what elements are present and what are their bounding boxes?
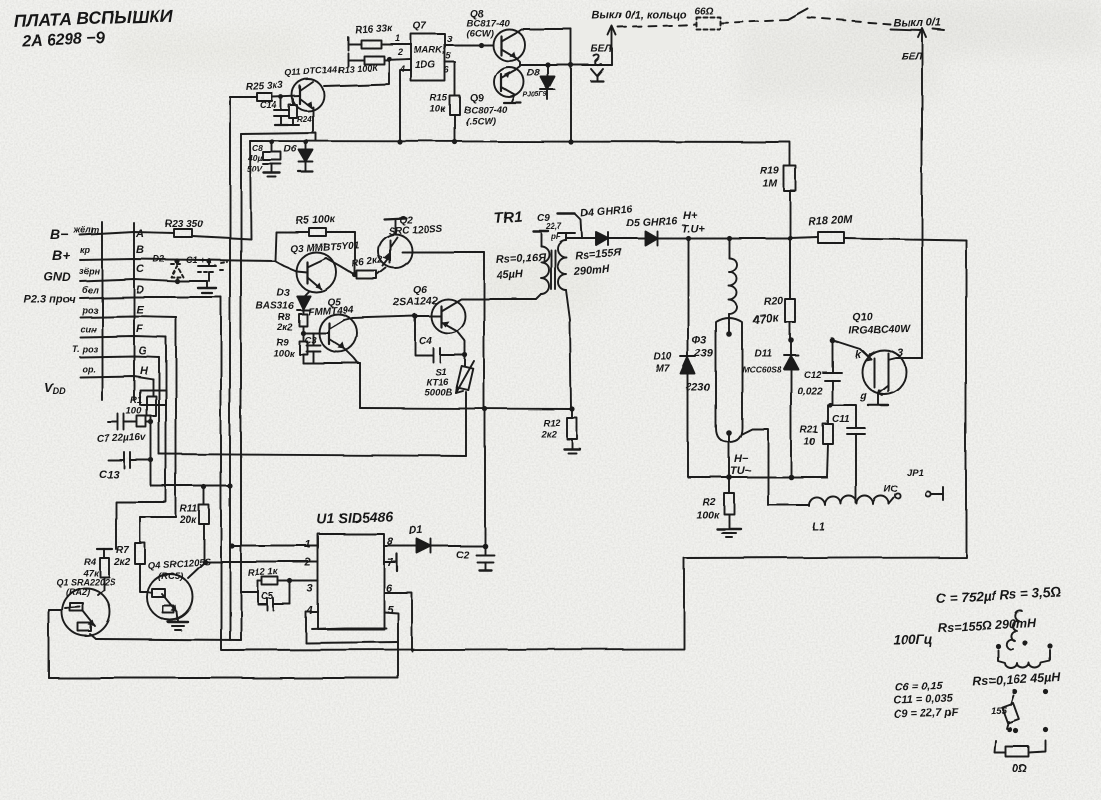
diode D10 M7 <box>654 352 696 477</box>
svg-text:0,022: 0,022 <box>797 386 822 397</box>
wire arrow out left <box>608 26 616 65</box>
diode D2 (dashed) <box>153 254 183 281</box>
node D8 tap <box>545 62 550 67</box>
connector symbol БЕЛ left <box>591 55 603 81</box>
node trigger coil <box>726 235 731 240</box>
node box bottom / C2 <box>482 406 487 411</box>
node B/D2 <box>174 258 179 263</box>
transistor Q1 SRA2202S <box>49 577 116 639</box>
svg-text:pF: pF <box>550 232 562 241</box>
svg-text:R7: R7 <box>116 545 129 556</box>
wire loop bottom U <box>306 642 398 643</box>
node C7 tap <box>148 419 153 424</box>
transistor Q9 BC807-40 <box>464 67 548 127</box>
svg-text:R12 1к: R12 1к <box>248 566 280 579</box>
wire H- <box>688 476 826 478</box>
TR1 primary winding <box>533 231 549 299</box>
wire R8 to Q5 base node <box>302 326 304 333</box>
node C/D2 <box>174 278 179 283</box>
wire U1 pin7 stub <box>384 554 397 571</box>
flash tube Ф3 <box>686 318 742 477</box>
svg-text:R21: R21 <box>800 425 819 436</box>
transistor Q4 SRC1205S <box>147 557 212 620</box>
svg-text:C6 = 0,15: C6 = 0,15 <box>895 680 944 694</box>
wire Q8/Q9 emitters <box>516 58 520 65</box>
wire U1 pin4 drop <box>306 612 318 643</box>
wire Q8 collector up <box>515 29 571 33</box>
svg-text:22,7: 22,7 <box>545 222 562 231</box>
diode D11 MCC60S8 <box>742 340 798 477</box>
svg-text:C5: C5 <box>261 591 274 602</box>
wire dashed link 3 <box>808 18 890 24</box>
svg-text:бел: бел <box>82 285 99 295</box>
svg-text:C3: C3 <box>304 335 317 346</box>
capacitor C14 <box>260 97 289 125</box>
node R11 top <box>201 484 206 489</box>
svg-text:ℓ230: ℓ230 <box>686 382 711 394</box>
svg-text:E: E <box>136 304 144 316</box>
svg-text:100к: 100к <box>273 348 295 359</box>
wire Q1 base drop <box>48 610 50 678</box>
capacitor C7 22u16v <box>97 414 151 445</box>
wire Q11 emitter drop <box>312 107 314 133</box>
resistor R18 20M <box>808 214 966 243</box>
svg-text:TR1: TR1 <box>493 208 522 227</box>
resistor R8 2k2 <box>276 312 307 333</box>
wire R25 to Q11 base <box>272 96 300 97</box>
wire trigger long (G row to S1) <box>159 454 466 456</box>
svg-text:2: 2 <box>397 47 403 57</box>
wire Q6 collector to TR1 <box>456 294 541 302</box>
wire row A riser <box>250 141 251 239</box>
resistor R19 1M <box>760 143 796 238</box>
sketch tilted resistor 155 <box>991 696 1019 729</box>
svg-text:H−: H− <box>734 453 749 465</box>
wire U1 pin1 <box>232 545 318 547</box>
svg-text:D11: D11 <box>754 348 772 359</box>
svg-text:Q6: Q6 <box>413 284 427 296</box>
TR1 core <box>551 250 555 289</box>
resistor R20 470k <box>751 238 795 340</box>
svg-text:66Ω: 66Ω <box>694 6 713 17</box>
svg-text:P2.3 проч: P2.3 проч <box>24 294 76 306</box>
resistor R9 100k <box>273 333 307 363</box>
wire БЕЛ right riser <box>918 28 926 358</box>
resistor R7 2k2 <box>113 517 176 592</box>
svg-text:3: 3 <box>447 34 452 44</box>
svg-text:D5 GHR16: D5 GHR16 <box>626 215 678 229</box>
svg-text:D8: D8 <box>527 68 540 79</box>
IC U1 SID5486 <box>317 508 394 629</box>
diode D6 <box>284 142 313 172</box>
svg-text:40µ: 40µ <box>247 153 262 163</box>
node S1 top <box>462 352 467 357</box>
wire row B <box>80 259 275 261</box>
wire Q3 collector to node <box>326 258 355 275</box>
svg-text:D6: D6 <box>284 144 297 155</box>
wire right branch down <box>570 29 572 143</box>
wire HV to H+ <box>657 237 818 238</box>
svg-text:Выкл 0/1: Выкл 0/1 <box>893 17 941 29</box>
wire Q7 pin4 drop <box>400 70 411 142</box>
wire C5 feed <box>241 591 258 593</box>
svg-text:Q7: Q7 <box>413 21 427 32</box>
svg-text:H: H <box>140 365 149 377</box>
svg-text:G: G <box>138 345 147 357</box>
node H+ lamp <box>685 235 690 240</box>
svg-text:20к: 20к <box>179 515 197 526</box>
node U1 pin2 feed <box>202 559 207 564</box>
wire Q9 collector tie <box>515 66 520 70</box>
wire row B to Q3 base <box>275 261 296 271</box>
wire row F drop <box>116 337 166 549</box>
diode D4 GHR16 <box>580 203 632 245</box>
wire row E <box>80 316 176 317</box>
svg-text:B+: B+ <box>52 247 70 263</box>
sketch bottom resistor 0 Ohm <box>995 741 1046 775</box>
sketch terminals row3 <box>1007 727 1048 733</box>
capacitor C2 <box>456 546 494 570</box>
wire row A to rail <box>192 236 251 239</box>
connector pin labels A-H <box>135 228 149 377</box>
node R21/C11 tee <box>827 402 832 407</box>
node C2 top <box>482 543 488 549</box>
wire row C <box>80 279 207 281</box>
wire vertical bus v3 <box>240 134 242 640</box>
diode D5 GHR16 <box>626 215 678 245</box>
svg-text:C8: C8 <box>252 143 263 153</box>
wire R5 right drop <box>354 232 356 275</box>
svg-text:R23 350: R23 350 <box>165 219 203 230</box>
resistor R11 20k <box>179 487 209 562</box>
wire big return loop <box>221 240 966 650</box>
wire rail Vcc (y=142) <box>250 141 790 142</box>
wire inner wavy <box>312 628 386 629</box>
resistor R12 1k <box>248 566 290 604</box>
node rail/branch <box>568 139 573 144</box>
capacitor C5 <box>258 581 290 610</box>
svg-text:C14: C14 <box>260 100 277 110</box>
node Q8/Q9 base tie <box>478 42 483 47</box>
IC Q7 MARK:1DG <box>411 21 446 81</box>
svg-text:БЕЛ: БЕЛ <box>901 51 923 62</box>
svg-text:R4: R4 <box>84 557 97 568</box>
svg-text:син: син <box>80 324 97 334</box>
svg-text:R1: R1 <box>130 395 142 406</box>
svg-text:БЕЛ: БЕЛ <box>591 44 613 55</box>
svg-text:470к: 470к <box>751 310 780 327</box>
wire Q6 emitter <box>457 331 465 355</box>
sketch transformer winding <box>998 650 1050 668</box>
node Q5 base <box>300 330 305 335</box>
svg-text:100к: 100к <box>696 509 720 521</box>
svg-text:B−: B− <box>50 226 68 242</box>
capacitor C3 <box>304 333 320 363</box>
wire row E drop <box>175 317 177 517</box>
resistor R5 100k <box>276 213 355 236</box>
note cap values <box>894 680 959 721</box>
wire C2 riser <box>484 409 486 546</box>
svg-text:g: g <box>859 390 867 402</box>
svg-text:R19: R19 <box>760 165 779 177</box>
svg-text:JP1: JP1 <box>907 468 924 479</box>
wire row H <box>80 376 153 379</box>
svg-text:R5 100к: R5 100к <box>296 213 336 227</box>
wire output node <box>520 64 612 66</box>
wire gnd row y639 <box>96 639 241 640</box>
svg-text:7: 7 <box>387 557 394 569</box>
resistor R23 350 <box>165 219 203 237</box>
svg-text:C13: C13 <box>99 469 119 481</box>
node Q3/R6 <box>352 272 357 277</box>
sketch small coil <box>1006 611 1022 650</box>
svg-text:C2: C2 <box>456 550 469 561</box>
svg-text:R25 3к3: R25 3к3 <box>246 80 284 93</box>
svg-text:BC807-40: BC807-40 <box>464 105 508 116</box>
svg-text:C11 = 0,035: C11 = 0,035 <box>894 693 955 707</box>
wire inner box top <box>241 133 316 141</box>
capacitor C8 40u 50V <box>247 142 281 177</box>
svg-text:L1: L1 <box>812 521 825 533</box>
transistor Q5 FMMT494 <box>308 297 357 352</box>
sketch terminals row2 <box>1012 689 1048 694</box>
svg-text:Т. роз: Т. роз <box>72 344 98 354</box>
wire Q7 pin5-6 <box>445 62 455 96</box>
svg-text:1: 1 <box>395 33 400 43</box>
svg-text:2А 6298 −9: 2А 6298 −9 <box>21 30 106 50</box>
thyristor Q2 SRC120SS <box>378 215 442 268</box>
svg-text:ИС: ИС <box>884 484 898 495</box>
svg-text:A: A <box>135 228 144 240</box>
wire R25 feed <box>230 96 257 98</box>
wire Q9 emitter to bar <box>504 95 521 103</box>
wire R15 to rail <box>454 115 456 142</box>
spark gap S1 KT16 5000V <box>424 355 474 398</box>
capacitor C4 <box>415 316 465 362</box>
wire row G <box>80 356 159 357</box>
wire HV line <box>566 237 596 239</box>
svg-text:C12: C12 <box>803 369 821 380</box>
svg-text:3: 3 <box>897 347 903 359</box>
svg-text:45µH: 45µH <box>496 269 525 282</box>
svg-text:D10: D10 <box>654 352 673 363</box>
resistor R12 2k2 <box>540 409 580 453</box>
switch blade <box>788 9 808 20</box>
svg-text:(.5CW): (.5CW) <box>466 116 496 127</box>
svg-text:ор.: ор. <box>82 364 96 374</box>
svg-text:R11: R11 <box>180 504 198 515</box>
svg-text:BAS316: BAS316 <box>256 301 294 312</box>
title: board name <box>13 5 172 50</box>
capacitor C13 <box>99 452 151 481</box>
svg-text:R20: R20 <box>764 295 784 308</box>
wire section box bottom <box>360 408 572 409</box>
wire rail to box bottom <box>359 363 361 408</box>
transistor Q6 2SA1242 <box>393 284 465 333</box>
svg-text:R24: R24 <box>297 115 312 124</box>
wire L1 to IC pad <box>889 498 894 504</box>
svg-text:(RA2): (RA2) <box>66 587 90 597</box>
svg-text:2к2: 2к2 <box>113 557 131 568</box>
svg-text:50V: 50V <box>247 164 263 174</box>
ground at C1 <box>198 281 216 293</box>
svg-text:C9 = 22,7 pF: C9 = 22,7 pF <box>894 707 959 721</box>
resistor R6 2k2 <box>351 255 386 279</box>
capacitor C12 0,022 <box>797 340 841 405</box>
wire U1 pin3 <box>290 580 318 582</box>
capacitor C1 (polarized, dashed bottom) <box>186 255 227 281</box>
svg-text:R12: R12 <box>543 418 561 429</box>
node C13 tap <box>148 457 153 462</box>
svg-text:Q9: Q9 <box>470 93 484 104</box>
svg-text:D: D <box>136 284 144 296</box>
svg-text:5000В: 5000В <box>424 387 452 398</box>
svg-text:5: 5 <box>387 604 394 616</box>
svg-text:100Гц: 100Гц <box>893 632 933 647</box>
wire U1 pin2 <box>205 561 318 563</box>
svg-text:R15: R15 <box>430 93 448 104</box>
capacitor C11 <box>830 405 865 503</box>
wire base node to Q5 <box>303 332 329 334</box>
diode D1 <box>409 524 485 553</box>
wire row B riser to R5 <box>275 232 276 261</box>
node pin4/rail <box>397 139 402 144</box>
transistor Q8 BC817-40 <box>466 9 525 61</box>
svg-text:239: 239 <box>694 348 714 360</box>
node pin3 net <box>287 578 292 583</box>
svg-text:1: 1 <box>305 539 311 551</box>
diode D3 BAS316 <box>256 288 310 314</box>
svg-text:IRG4BC40W: IRG4BC40W <box>849 323 912 337</box>
svg-text:C1 +: C1 + <box>186 255 206 265</box>
wire Q7 pin3 to Q8 <box>445 44 493 46</box>
wire Q11 collector net <box>324 59 389 86</box>
node branch cross <box>568 62 573 67</box>
wire Q5 collector to Q6 base <box>344 316 441 320</box>
svg-text:R9: R9 <box>276 337 289 348</box>
node U1 pin1 feed <box>229 543 234 548</box>
svg-text:H+: H+ <box>683 210 698 222</box>
node R20 top <box>787 235 792 240</box>
node D11 bottom <box>788 474 794 480</box>
svg-text:C11: C11 <box>832 414 850 425</box>
svg-text:роз: роз <box>81 305 98 315</box>
node R15/rail <box>452 139 457 144</box>
svg-text:C: C <box>136 263 145 275</box>
svg-text:T.U+: T.U+ <box>681 223 705 235</box>
svg-text:Выкл 0/1, кольцо: Выкл 0/1, кольцо <box>592 8 686 22</box>
svg-text:1DG: 1DG <box>415 60 436 71</box>
wire gate to Q10 <box>832 340 871 359</box>
svg-text:R16 33к: R16 33к <box>355 23 394 36</box>
svg-text:C4: C4 <box>419 336 432 347</box>
wire row G drop <box>158 357 160 454</box>
node gate net left <box>788 337 794 343</box>
svg-text:1М: 1М <box>763 178 778 190</box>
wire S1 bottom drop <box>465 392 467 456</box>
wire supply row y486 <box>151 485 231 487</box>
svg-text:2к2: 2к2 <box>276 322 293 333</box>
wire row F <box>80 336 166 337</box>
label Rs=155 290mH <box>572 247 623 278</box>
wire Q2 to section box <box>412 251 484 253</box>
trigger coil on lamp <box>729 238 737 323</box>
svg-text:Q10: Q10 <box>853 311 874 324</box>
wire U1 pin5 drop <box>384 612 398 678</box>
jumper JP1 <box>884 468 943 500</box>
TR1 secondary winding <box>558 240 572 409</box>
svg-text:10к: 10к <box>430 104 447 115</box>
connector X1 body <box>102 222 166 405</box>
resistor R4 47k <box>82 549 112 595</box>
resistor R25 3k3 <box>246 80 284 101</box>
svg-text:R18 20M: R18 20M <box>808 214 854 228</box>
svg-text:D3: D3 <box>277 288 290 299</box>
wire vertical bus v2 <box>229 97 231 640</box>
node D6/rail <box>303 139 308 144</box>
wire Q4 collector diagonal <box>188 562 205 578</box>
label Выкл 0/1 right <box>890 17 944 30</box>
svg-text:F: F <box>136 323 143 335</box>
svg-text:GND: GND <box>44 270 71 284</box>
svg-text:(6CW): (6CW) <box>466 28 493 39</box>
wire Q5 ground rail <box>303 362 360 364</box>
svg-text:k: k <box>855 349 862 361</box>
wire row A <box>80 232 174 235</box>
svg-text:C7 22µ16v: C7 22µ16v <box>97 432 148 445</box>
ground at Q4 emitter <box>168 612 188 630</box>
resistor R1 100 <box>126 395 156 486</box>
resistor R16a <box>348 40 411 48</box>
wire U1 pin6 loop <box>384 593 412 651</box>
resistor R15 10k <box>430 93 460 115</box>
svg-text:D2: D2 <box>153 254 165 264</box>
svg-text:U1 SID5486: U1 SID5486 <box>317 508 394 527</box>
node C14 tap <box>279 95 284 100</box>
svg-text:кр: кр <box>80 245 91 255</box>
svg-text:MCC60S8: MCC60S8 <box>742 364 781 374</box>
wire U1 pin8 <box>384 545 417 547</box>
svg-text:Ф3: Ф3 <box>692 335 707 347</box>
resistor R16b <box>348 56 411 64</box>
wire D4-D5 <box>608 237 645 239</box>
wire dashed link 2 <box>720 20 788 23</box>
svg-text:D1: D1 <box>409 524 424 537</box>
svg-text:М7: М7 <box>656 364 670 375</box>
svg-text:155: 155 <box>991 706 1008 717</box>
svg-text:4: 4 <box>306 605 313 617</box>
resistor R24 <box>288 99 312 125</box>
capacitor C9 22.7pF <box>537 213 582 241</box>
wire row D <box>80 297 221 298</box>
svg-text:PJ05Г9: PJ05Г9 <box>523 92 548 99</box>
svg-text:зёрн: зёрн <box>79 266 100 276</box>
diode D8 <box>527 65 555 100</box>
resistor R2 100k <box>696 477 741 537</box>
svg-text:2к2: 2к2 <box>540 429 557 440</box>
wire row H drop to R1 <box>152 379 154 396</box>
svg-text:Q1 SRA2202S: Q1 SRA2202S <box>56 577 116 587</box>
wire Q5 emitter to rail <box>345 349 358 363</box>
svg-text:2: 2 <box>304 557 311 569</box>
node B/C1 <box>206 258 211 263</box>
pad ticks left of R16 <box>347 37 349 66</box>
wire dashed link <box>618 24 696 27</box>
resistor R21 10 <box>800 405 833 477</box>
node C8/rail <box>269 139 274 144</box>
svg-text:0Ω: 0Ω <box>1012 763 1027 775</box>
node lamp cathode <box>726 474 732 480</box>
